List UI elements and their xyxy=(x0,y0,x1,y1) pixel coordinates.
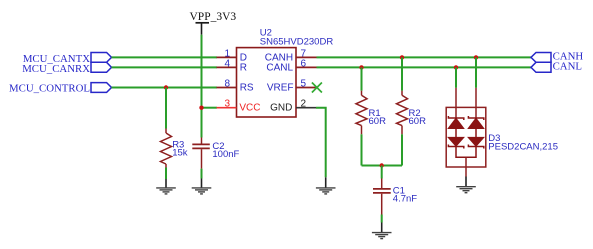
svg-text:CANL: CANL xyxy=(266,63,293,74)
power symbol VPP_3V3 stem xyxy=(201,23,203,35)
diode D3 top-left xyxy=(448,116,463,128)
wire pin 2 to ground xyxy=(316,108,326,178)
pin 5 stub VREF xyxy=(296,87,317,89)
node R1 junction on CANL xyxy=(359,65,363,69)
svg-text:VCC: VCC xyxy=(239,103,260,114)
pin 7 stub xyxy=(296,56,317,58)
svg-text:RS: RS xyxy=(240,83,254,94)
node C1 junction xyxy=(380,163,384,167)
wire D3 anodes join xyxy=(456,147,476,158)
power symbol VPP_3V3 bar xyxy=(196,22,210,24)
wire MCU_CONTROL to pin 8 xyxy=(112,87,218,89)
wire VPP vertical to VCC node xyxy=(201,35,203,108)
wire C1 to ground xyxy=(381,215,383,223)
svg-text:5: 5 xyxy=(301,78,307,89)
capacitor C2 xyxy=(192,138,210,169)
svg-text:MCU_CANRX: MCU_CANRX xyxy=(22,63,90,75)
wire R2 down to join xyxy=(401,134,403,165)
pin 4 stub xyxy=(217,66,237,68)
svg-text:R: R xyxy=(240,63,247,74)
node D3 right junction on CANH xyxy=(474,55,478,59)
wire D3 left mid xyxy=(455,128,457,138)
pin 2 stub GND xyxy=(296,107,316,109)
wire pin 7 to port CANH xyxy=(317,56,532,58)
svg-text:60R: 60R xyxy=(369,116,387,127)
svg-text:PESD2CAN,215: PESD2CAN,215 xyxy=(488,142,558,153)
ground under R3 xyxy=(156,188,176,194)
diode D3 top-right xyxy=(468,116,483,128)
svg-text:4: 4 xyxy=(224,58,230,69)
ground stem under R3 xyxy=(165,179,167,188)
wire MCU_CANTX to pin 1 xyxy=(112,56,218,58)
ground under U2 xyxy=(316,188,336,194)
resistor R1 xyxy=(356,91,367,135)
ground stem under D3 xyxy=(465,177,467,187)
wire D3 right mid xyxy=(475,128,477,138)
svg-text:GND: GND xyxy=(270,103,292,114)
wire CANH down to R2 xyxy=(401,57,403,90)
svg-text:CANL: CANL xyxy=(553,61,582,73)
wire RS tap down to R3 xyxy=(165,88,167,129)
wire R1 down to join xyxy=(361,134,363,165)
svg-text:2: 2 xyxy=(301,98,307,109)
port CANL xyxy=(531,62,551,72)
wire R3 to ground xyxy=(165,168,167,180)
ground stem under U2 xyxy=(325,177,327,187)
resistor R3 xyxy=(161,129,172,168)
port CANH xyxy=(531,53,551,63)
pin D3 right xyxy=(475,88,477,118)
wire pin 6 to port CANL xyxy=(317,66,532,68)
svg-text:60R: 60R xyxy=(409,116,427,127)
svg-text:VREF: VREF xyxy=(267,83,294,94)
pin 1 stub xyxy=(217,56,237,58)
ground stem under C1 xyxy=(381,223,383,233)
svg-text:VPP_3V3: VPP_3V3 xyxy=(190,11,237,23)
wire joining R1 R2 bottoms xyxy=(362,165,403,167)
wire CANL down to R1 xyxy=(361,67,363,90)
pin D3 common xyxy=(465,157,467,176)
port MCU_CANTX xyxy=(91,53,112,63)
ground under C2 xyxy=(192,188,212,194)
op-amp U2 body xyxy=(237,48,297,117)
pin 8 stub xyxy=(217,87,237,89)
svg-text:MCU_CONTROL: MCU_CONTROL xyxy=(9,83,90,95)
pin D3 left xyxy=(455,88,457,118)
wire C2 to ground xyxy=(201,169,203,179)
svg-text:100nF: 100nF xyxy=(212,149,239,160)
ground under C1 xyxy=(372,233,392,239)
wire CANL down to D3 pin 1 xyxy=(455,67,457,87)
ground under D3 xyxy=(456,187,476,193)
diode D3 bottom-right xyxy=(468,138,483,149)
wire VCC node to pin 3 xyxy=(202,107,217,109)
svg-text:SN65HVD230DR: SN65HVD230DR xyxy=(260,37,334,48)
ground stem under C2 xyxy=(201,179,203,188)
svg-text:15k: 15k xyxy=(172,147,188,158)
pin 6 stub xyxy=(296,66,317,68)
diode D3 bottom-left xyxy=(448,138,463,149)
node R2 junction on CANH xyxy=(400,55,404,59)
capacitor C1 xyxy=(373,179,391,215)
wire junction down to C1 xyxy=(381,166,383,179)
wire CANH down to D3 pin 2 xyxy=(475,57,477,87)
svg-text:8: 8 xyxy=(224,78,230,89)
svg-text:6: 6 xyxy=(301,58,307,69)
pin 3 stub VCC xyxy=(217,107,237,109)
wire MCU_CANRX to pin 4 xyxy=(112,66,218,68)
node R3 tap junction xyxy=(164,85,168,89)
no-connect X on pin 5 xyxy=(312,83,322,93)
transistor D3 box xyxy=(446,107,486,167)
port MCU_CANRX xyxy=(91,62,112,72)
node VCC junction xyxy=(199,106,203,110)
svg-text:3: 3 xyxy=(224,98,230,109)
node D3 left junction on CANL xyxy=(454,65,458,69)
resistor R2 xyxy=(397,91,408,135)
wire VCC node down to C2 xyxy=(201,108,203,138)
svg-text:4.7nF: 4.7nF xyxy=(393,194,417,205)
port MCU_CONTROL xyxy=(91,83,112,93)
